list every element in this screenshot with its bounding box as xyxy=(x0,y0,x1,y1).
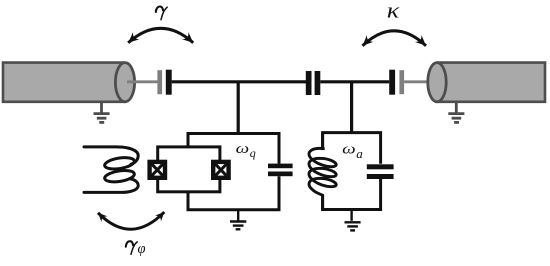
label omega_q xyxy=(236,140,256,160)
wire (feedline tee down to resonator) xyxy=(350,82,353,134)
svg-text:φ: φ xyxy=(138,241,146,257)
ground (left cable) xyxy=(94,102,110,123)
ground (right cable) xyxy=(448,102,464,123)
coax cable right xyxy=(428,63,545,102)
arrow kappa (curved double-headed) xyxy=(363,31,427,46)
label gamma_phi xyxy=(126,241,146,257)
coax cable left xyxy=(3,63,135,102)
inductor La (resonator) xyxy=(309,134,336,210)
svg-text:ω: ω xyxy=(236,140,250,157)
wire (C3 to right cable, gray) xyxy=(404,80,432,83)
wire (SQUID loop) xyxy=(158,147,220,192)
capacitor C1 (input coupling) xyxy=(157,70,171,95)
label kappa xyxy=(387,0,400,23)
capacitor C3 (output coupling) xyxy=(389,70,404,95)
wire (feedline right section) xyxy=(320,80,389,83)
svg-text:q: q xyxy=(250,146,256,160)
ground (resonator) xyxy=(345,210,361,231)
wire (left cable to C1, gray) xyxy=(127,80,158,83)
wire (feedline tee down to qubit) xyxy=(237,82,240,135)
wire (feedline left section) xyxy=(172,80,307,83)
capacitor C2 (mid feedline) xyxy=(306,71,321,95)
inductor (flux bias coil) xyxy=(84,147,138,193)
ground (qubit) xyxy=(230,210,246,230)
svg-text:κ: κ xyxy=(387,0,400,23)
label gamma xyxy=(156,6,167,19)
Josephson junction JJ1 (boxed cross) xyxy=(147,160,167,180)
wire (qubit outer loop) xyxy=(188,134,279,210)
arrow gamma_phi (curved double-headed) xyxy=(98,212,164,229)
svg-text:ω: ω xyxy=(342,140,356,157)
capacitor Cq (qubit shunt) xyxy=(268,164,293,177)
label omega_a xyxy=(342,140,363,161)
capacitor Ca (resonator) xyxy=(367,164,394,179)
arrow gamma (curved double-headed) xyxy=(128,28,193,43)
svg-text:a: a xyxy=(356,146,363,161)
wire (resonator loop) xyxy=(323,133,381,210)
Josephson junction JJ2 (boxed cross) xyxy=(211,160,231,180)
